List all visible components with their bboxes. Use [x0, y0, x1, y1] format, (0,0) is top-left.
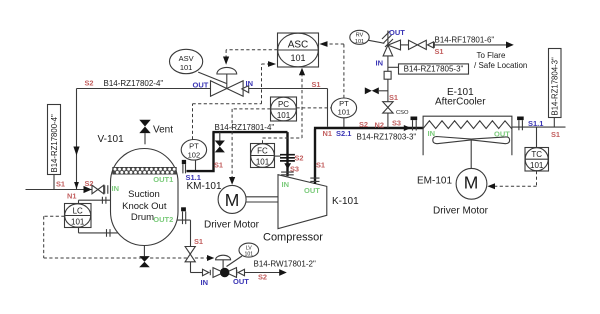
vessel V-101 drum shell [111, 149, 179, 246]
node N1 discharge [323, 129, 332, 138]
svg-text:S3: S3 [392, 119, 401, 128]
svg-text:S1: S1 [389, 93, 398, 102]
svg-text:TC: TC [531, 150, 542, 159]
label To Flare [474, 51, 527, 70]
svg-text:IN: IN [246, 79, 254, 88]
svg-text:101: 101 [338, 108, 351, 117]
node S1 flare line [435, 47, 444, 56]
wire recycle line top [77, 88, 211, 90]
wire ASV inlet from discharge [249, 89, 328, 127]
pipe suction to compressor [187, 132, 288, 176]
wire LC signal to LV-101 [44, 216, 215, 261]
heat exchanger E-101 shell [423, 116, 512, 155]
svg-text:LC: LC [73, 207, 83, 216]
svg-text:S1: S1 [56, 180, 65, 189]
valve drain blocked [365, 87, 388, 94]
wire FC to ASC signal [263, 68, 306, 144]
label Vent [153, 124, 173, 135]
valve feed inlet [92, 185, 104, 194]
node S1 drain [194, 237, 203, 246]
svg-text:V-101: V-101 [98, 134, 125, 145]
node S1 recycle corner [312, 80, 321, 89]
label EM-101 [417, 176, 452, 187]
node IN cooler [428, 129, 436, 138]
svg-text:M: M [225, 190, 240, 210]
flange compressor inlet [281, 172, 294, 175]
svg-text:101: 101 [530, 161, 544, 170]
svg-text:Driver Motor: Driver Motor [433, 206, 489, 217]
pipe label box B14-RZ17805-3" [388, 64, 469, 74]
node OUT compressor [304, 186, 320, 195]
svg-text:S1: S1 [214, 161, 223, 170]
reducer flare [428, 42, 435, 48]
svg-text:ASV: ASV [179, 54, 194, 63]
flange compressor outlet [310, 178, 319, 181]
node S1 feed [56, 180, 65, 189]
demister mesh pad [113, 167, 177, 174]
instrument TC-101 [525, 127, 549, 171]
node S2.1 discharge [336, 129, 351, 138]
svg-text:PC: PC [278, 100, 289, 109]
motor EM-101 [456, 168, 487, 199]
svg-text:ASC: ASC [288, 40, 309, 51]
svg-text:IN: IN [201, 278, 209, 287]
svg-text:AfterCooler: AfterCooler [435, 97, 486, 108]
svg-text:OUT1: OUT1 [153, 175, 173, 184]
wire PT-101 to PC signal [297, 107, 332, 109]
flow arrow into compressor [284, 163, 291, 169]
wire flare riser [387, 56, 389, 128]
svg-text:FC: FC [257, 147, 268, 156]
label E-101 AfterCooler [435, 87, 486, 108]
node IN LV [201, 278, 209, 287]
node IN RV [376, 59, 384, 68]
wire recycle downcomer [76, 89, 78, 190]
svg-text:To Flare: To Flare [477, 51, 506, 60]
label Driver Motor KM [204, 220, 260, 231]
node OUT RV [389, 28, 405, 37]
pipe label B14-RW17801-2" [254, 260, 316, 269]
wire LC upper tap [79, 197, 112, 204]
instrument LC-101 [65, 204, 92, 228]
pipe label B14-RZ17803-3" [357, 133, 417, 142]
svg-text:101: 101 [71, 218, 85, 227]
svg-text:B14-RZ17803-3": B14-RZ17803-3" [357, 133, 417, 142]
svg-text:101: 101 [256, 158, 270, 167]
node N2 [375, 120, 384, 129]
node S2 feed [85, 179, 94, 188]
svg-text:B14-RZ17800-4": B14-RZ17800-4" [50, 114, 59, 172]
node S2 before CSO [359, 120, 368, 129]
wire PT-102 to ASC signal [193, 61, 277, 139]
node IN compressor [282, 180, 290, 189]
tag ASV-101 [170, 49, 227, 83]
label KM-101 [187, 181, 222, 192]
node OUT LV [233, 277, 249, 286]
svg-text:S2: S2 [359, 120, 368, 129]
instrument PC-101 [271, 97, 297, 121]
svg-text:S1: S1 [435, 47, 444, 56]
svg-text:PT: PT [189, 142, 199, 151]
nozzle cooler inlet [411, 117, 418, 131]
nozzle OUT1 with blind [182, 160, 186, 174]
node S1 flare riser [389, 93, 398, 102]
wire to flare [434, 42, 514, 49]
wire TC to EM motor signal [487, 171, 536, 189]
vent valve [139, 120, 150, 145]
nozzle cooler outlet [517, 117, 524, 131]
node S1.1 cooler outlet [528, 119, 543, 128]
valve CSO car sealed open [383, 102, 409, 116]
wire PT-101 to ASC signal [319, 41, 344, 98]
valve LV-101 letdown [190, 255, 244, 277]
svg-text:IN: IN [282, 180, 290, 189]
svg-text:M: M [464, 172, 479, 192]
node IN ASV [246, 79, 254, 88]
svg-text:KM-101: KM-101 [187, 181, 222, 192]
svg-text:S2: S2 [295, 154, 304, 163]
wire feed line into drum [26, 189, 104, 191]
svg-text:S1: S1 [194, 237, 203, 246]
svg-text:S1: S1 [312, 80, 321, 89]
flow arrow recycle down [73, 147, 79, 156]
svg-text:IN: IN [428, 129, 436, 138]
node IN drum [112, 184, 120, 193]
tag LV-101 [227, 243, 259, 266]
svg-text:101: 101 [244, 251, 253, 257]
node OUT2 drum [153, 215, 173, 224]
svg-text:S2.1: S2.1 [336, 129, 351, 138]
compressor K-101 [278, 175, 327, 229]
svg-text:N2: N2 [375, 120, 384, 129]
svg-text:EM-101: EM-101 [417, 176, 452, 187]
svg-text:101: 101 [355, 39, 364, 45]
spec blind square [384, 71, 391, 79]
svg-text:N1: N1 [67, 192, 76, 201]
svg-text:B14-RZ17801-4": B14-RZ17801-4" [215, 123, 275, 132]
svg-text:S1.1: S1.1 [528, 119, 543, 128]
drum bottom drain valve [139, 246, 150, 268]
svg-text:/ Safe Location: / Safe Location [474, 61, 527, 70]
node S1 suction stub [214, 161, 223, 170]
pipe label box B14-RZ17800-4" [48, 105, 61, 190]
svg-text:Drum: Drum [131, 212, 154, 223]
valve ASV-101 control valve [211, 67, 249, 96]
svg-text:Vent: Vent [153, 124, 173, 135]
svg-text:101: 101 [290, 53, 305, 63]
pipe label B14-RF17801-6" [435, 36, 495, 45]
label Driver Motor EM [433, 206, 489, 217]
svg-text:OUT: OUT [193, 81, 209, 90]
svg-text:OUT: OUT [304, 186, 320, 195]
label Compressor [263, 232, 323, 244]
pipe discharge riser [314, 128, 423, 184]
svg-text:B14-RZ17802-4": B14-RZ17802-4" [104, 79, 164, 88]
valve drain block [185, 247, 195, 262]
wire drum OUT2 drain [177, 220, 191, 272]
svg-text:CSO: CSO [396, 110, 409, 116]
wire cooler outlet [512, 126, 566, 128]
node S1 cooled gas [551, 130, 560, 139]
svg-text:K-101: K-101 [332, 196, 359, 207]
svg-text:B14-RZ17804-3": B14-RZ17804-3" [551, 57, 560, 115]
svg-text:Driver Motor: Driver Motor [204, 220, 260, 231]
svg-text:S1: S1 [551, 130, 560, 139]
wire flare header [401, 44, 409, 46]
svg-text:B14-RZ17805-3": B14-RZ17805-3" [404, 65, 464, 74]
wire liquid outlet [245, 269, 287, 276]
svg-text:OUT: OUT [233, 277, 249, 286]
label V-101 [98, 134, 125, 145]
svg-text:S2: S2 [85, 79, 94, 88]
node S3 after CSO [392, 119, 401, 128]
node S2 suction [295, 154, 304, 163]
svg-text:101: 101 [180, 63, 193, 72]
node OUT ASV [193, 81, 209, 90]
instrument FC-101 [251, 144, 275, 168]
orifice FE flanges [280, 155, 295, 161]
svg-text:S2: S2 [258, 273, 267, 282]
svg-text:B14-RW17801-2": B14-RW17801-2" [254, 260, 316, 269]
svg-text:101: 101 [277, 111, 291, 120]
svg-text:OUT: OUT [389, 28, 405, 37]
shaft KM to compressor [246, 197, 278, 202]
instrument ASC-101 [278, 33, 319, 67]
svg-text:Knock Out: Knock Out [122, 201, 167, 212]
node S1 discharge riser [316, 161, 325, 170]
svg-text:S1: S1 [316, 161, 325, 170]
drum text [122, 189, 167, 223]
nozzle OUT2 with blind [181, 207, 186, 224]
svg-text:Suction: Suction [128, 189, 160, 200]
flange drum inlet nozzle [105, 185, 108, 194]
flow arrow into cooler [404, 125, 411, 131]
motor KM-101 [218, 185, 246, 213]
node S1.1 drum outlet [186, 173, 201, 182]
coil zigzag [423, 121, 512, 129]
fan shaft [470, 140, 472, 169]
node S3 suction [290, 164, 299, 173]
svg-text:N1: N1 [323, 129, 332, 138]
node N1 [67, 192, 76, 201]
tag RV-101 [350, 30, 385, 45]
node OUT1 drum [153, 175, 173, 184]
svg-text:102: 102 [188, 151, 201, 160]
svg-text:RV: RV [356, 33, 364, 39]
pipe label B14-RZ17801-4" [215, 123, 275, 132]
valve suction stub blocked [215, 132, 225, 152]
wire FC to orifice [275, 155, 281, 157]
flow arrow on feed line [84, 186, 92, 193]
svg-text:Compressor: Compressor [263, 232, 323, 244]
svg-text:IN: IN [376, 59, 384, 68]
node OUT cooler [494, 130, 510, 139]
svg-text:IN: IN [112, 184, 120, 193]
pipe label box B14-RZ17804-3" [549, 49, 562, 128]
svg-text:B14-RF17801-6": B14-RF17801-6" [435, 36, 495, 45]
instrument PT-101 [331, 98, 356, 127]
svg-text:OUT2: OUT2 [153, 215, 173, 224]
flow arrow junction N1 [74, 182, 79, 189]
instrument PT-102 [181, 140, 206, 172]
label K-101 [332, 196, 359, 207]
fan blades [433, 137, 510, 144]
relief valve RV-101 [382, 31, 401, 56]
node S2 liquid outlet [258, 273, 267, 282]
wire LC lower tap [79, 228, 119, 237]
valve flare block [409, 40, 427, 49]
wire ASC to ASV signal [223, 50, 278, 65]
pipe label B14-RZ17802-4" [104, 79, 164, 88]
node S2 recycle [85, 79, 94, 88]
wire PC to KM motor signal [229, 109, 271, 185]
